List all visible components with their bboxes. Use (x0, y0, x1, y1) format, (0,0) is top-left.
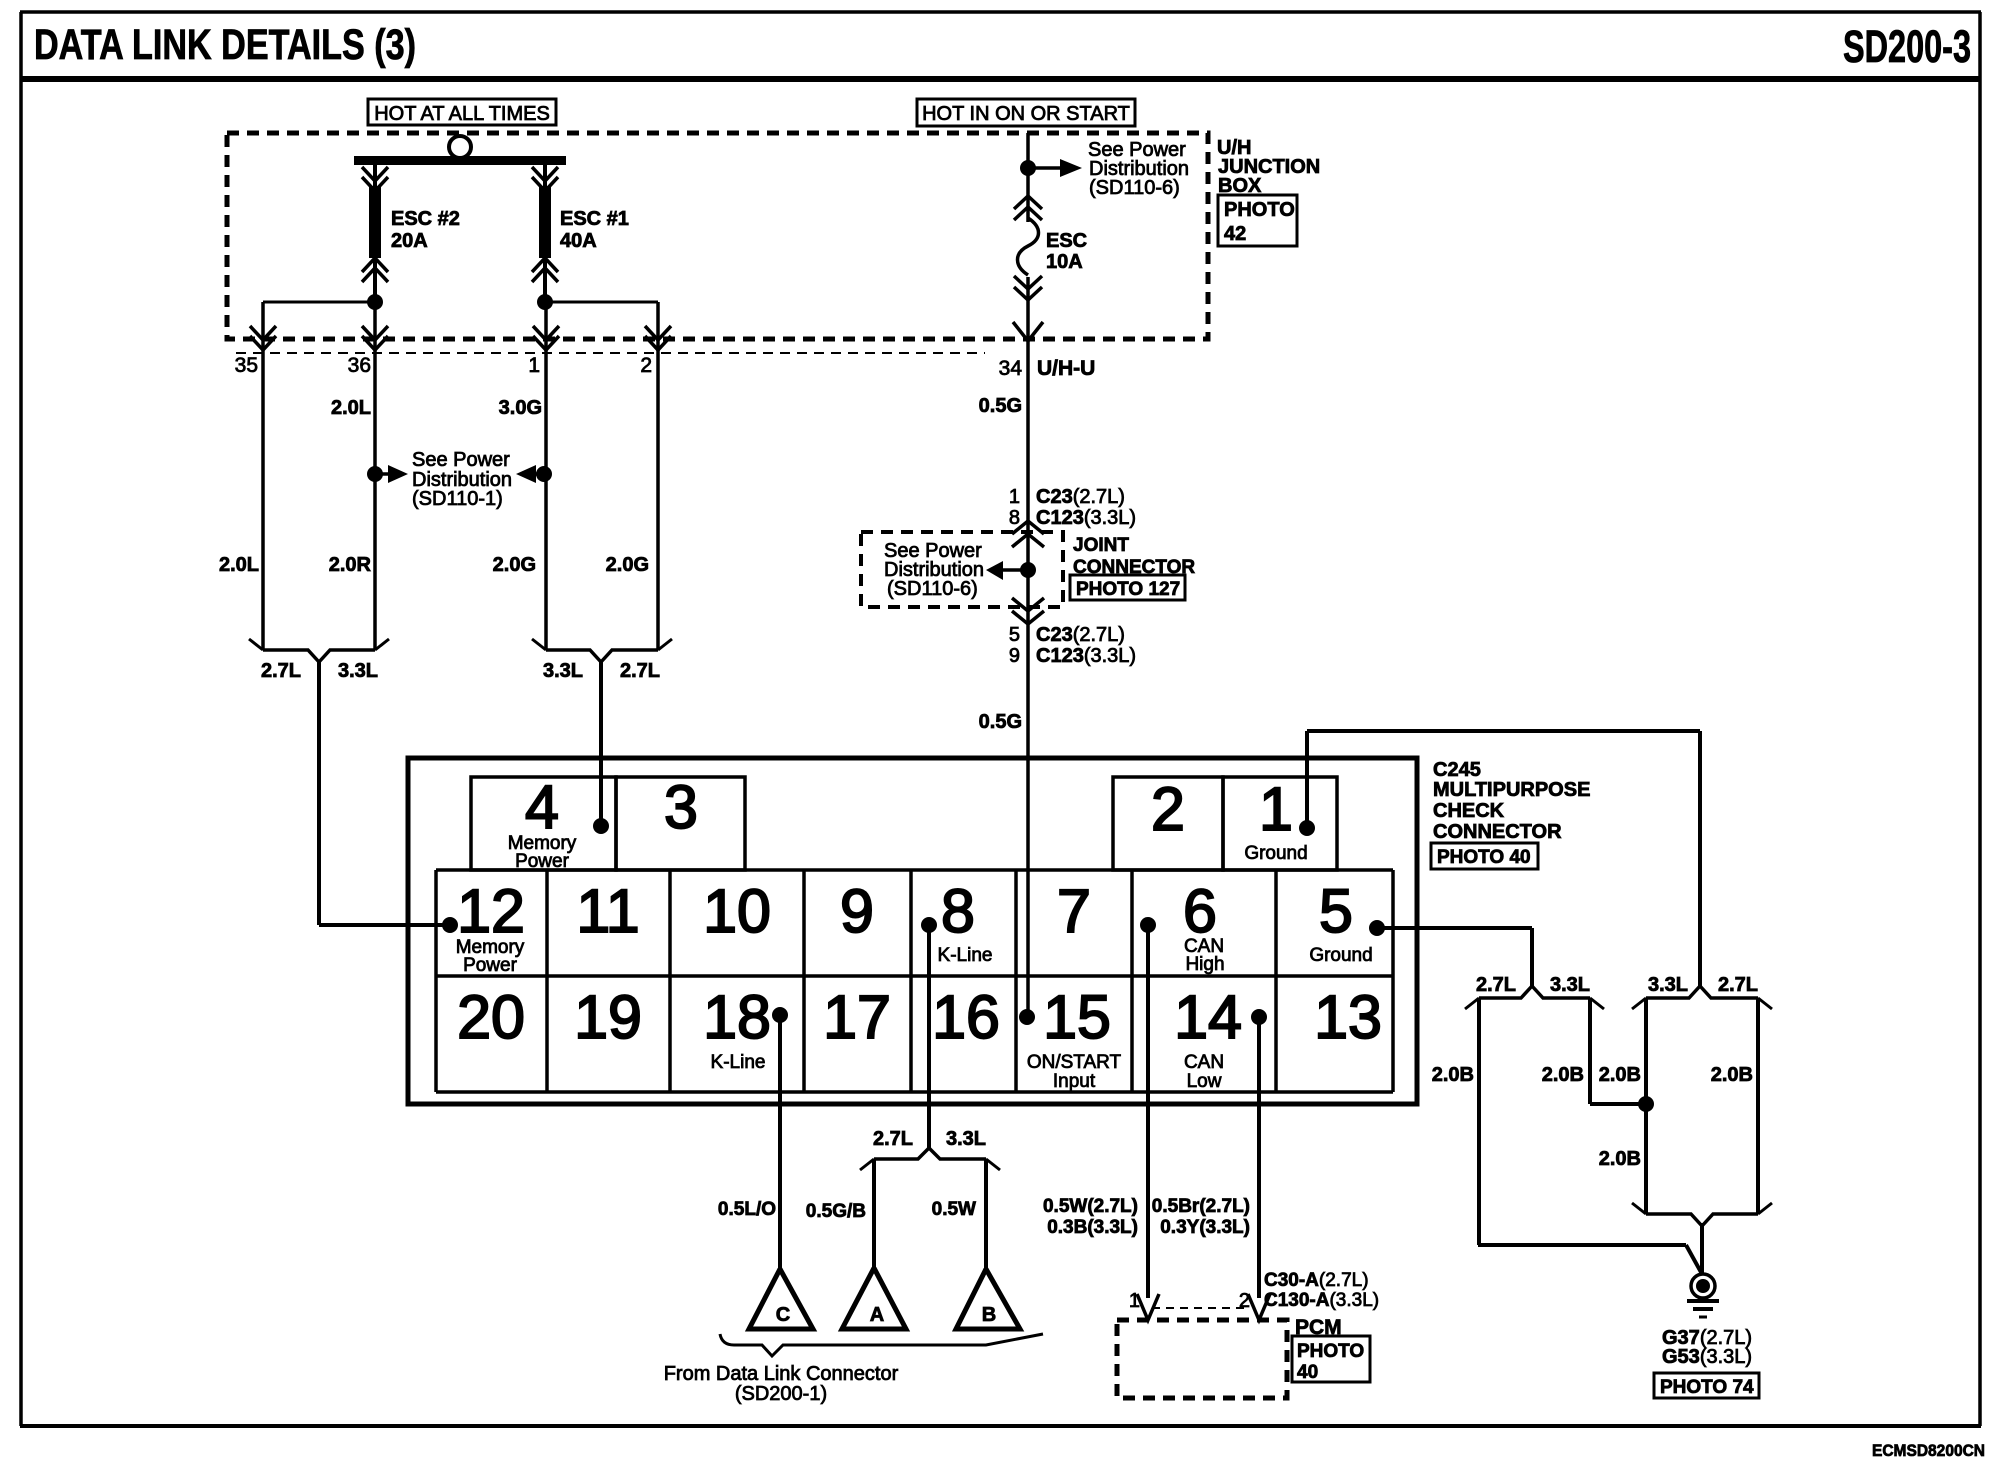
svg-text:Ground: Ground (1244, 843, 1307, 864)
svg-text:(SD110-6): (SD110-6) (887, 578, 978, 600)
svg-text:34: 34 (999, 357, 1023, 380)
svg-text:3.3L: 3.3L (1648, 974, 1688, 996)
svg-text:2.0R: 2.0R (329, 554, 372, 576)
svg-text:5: 5 (1009, 624, 1020, 646)
svg-text:14: 14 (1174, 983, 1242, 1051)
svg-text:1: 1 (1259, 775, 1293, 843)
svg-text:PHOTO: PHOTO (1297, 1341, 1364, 1362)
svg-text:3.3L: 3.3L (338, 660, 378, 682)
svg-text:B: B (982, 1304, 996, 1326)
svg-text:0.5Br(2.7L): 0.5Br(2.7L) (1152, 1196, 1250, 1217)
svg-text:6: 6 (1183, 877, 1217, 945)
svg-text:7: 7 (1057, 877, 1091, 945)
svg-text:20A: 20A (391, 230, 428, 252)
svg-text:K-Line: K-Line (938, 945, 993, 966)
svg-text:19: 19 (574, 983, 642, 1051)
svg-text:3.3L: 3.3L (946, 1128, 986, 1150)
svg-text:2.7L: 2.7L (1476, 974, 1516, 996)
svg-text:9: 9 (840, 877, 874, 945)
svg-text:0.5G: 0.5G (979, 395, 1022, 417)
svg-text:3.3L: 3.3L (1550, 974, 1590, 996)
svg-text:17: 17 (823, 983, 891, 1051)
svg-text:C130-A(3.3L): C130-A(3.3L) (1264, 1290, 1379, 1311)
svg-text:C123(3.3L): C123(3.3L) (1036, 645, 1136, 667)
svg-text:C245: C245 (1433, 759, 1481, 781)
svg-text:PHOTO 40: PHOTO 40 (1437, 847, 1531, 868)
svg-text:11: 11 (576, 877, 639, 945)
svg-text:0.5G: 0.5G (979, 711, 1022, 733)
svg-text:2.0L: 2.0L (331, 397, 371, 419)
svg-text:2.0B: 2.0B (1599, 1064, 1641, 1086)
svg-text:10: 10 (703, 877, 771, 945)
svg-text:Low: Low (1187, 1071, 1222, 1092)
svg-text:42: 42 (1224, 223, 1246, 245)
svg-text:JOINT: JOINT (1073, 535, 1129, 556)
svg-text:3.0G: 3.0G (499, 397, 542, 419)
svg-text:1: 1 (528, 354, 540, 377)
svg-text:HOT IN ON OR START: HOT IN ON OR START (922, 103, 1130, 125)
svg-text:2.0G: 2.0G (493, 554, 536, 576)
svg-text:Ground: Ground (1309, 945, 1372, 966)
svg-text:2.7L: 2.7L (261, 660, 301, 682)
svg-text:See Power: See Power (412, 449, 510, 471)
svg-text:High: High (1185, 954, 1224, 975)
svg-text:10A: 10A (1046, 251, 1083, 273)
svg-text:2.7L: 2.7L (1718, 974, 1758, 996)
svg-text:ESC: ESC (1046, 230, 1087, 252)
svg-text:3.3L: 3.3L (543, 660, 583, 682)
svg-text:ESC #2: ESC #2 (391, 208, 460, 230)
svg-text:(SD200-1): (SD200-1) (735, 1383, 827, 1405)
svg-text:2: 2 (640, 354, 652, 377)
svg-text:12: 12 (457, 877, 525, 945)
svg-text:18: 18 (703, 983, 771, 1051)
svg-text:HOT AT ALL TIMES: HOT AT ALL TIMES (374, 103, 550, 125)
svg-text:(SD110-6): (SD110-6) (1089, 177, 1180, 199)
svg-text:2.0B: 2.0B (1711, 1064, 1753, 1086)
svg-text:PHOTO: PHOTO (1224, 199, 1295, 221)
svg-text:2.0B: 2.0B (1432, 1064, 1474, 1086)
svg-text:ESC #1: ESC #1 (560, 208, 629, 230)
svg-text:From Data Link Connector: From Data Link Connector (664, 1363, 899, 1385)
svg-text:2.0B: 2.0B (1599, 1148, 1641, 1170)
svg-text:(SD110-1): (SD110-1) (412, 488, 503, 510)
svg-text:0.5W(2.7L): 0.5W(2.7L) (1043, 1196, 1138, 1217)
svg-text:CONNECTOR: CONNECTOR (1433, 821, 1562, 843)
svg-text:A: A (870, 1304, 884, 1326)
svg-text:40A: 40A (560, 230, 597, 252)
svg-text:0.3Y(3.3L): 0.3Y(3.3L) (1160, 1217, 1250, 1238)
svg-text:35: 35 (235, 354, 258, 377)
svg-text:G53(3.3L): G53(3.3L) (1662, 1346, 1752, 1368)
svg-text:16: 16 (932, 983, 1000, 1051)
svg-text:8: 8 (941, 877, 975, 945)
svg-text:Input: Input (1053, 1071, 1096, 1092)
svg-text:C23(2.7L): C23(2.7L) (1036, 624, 1125, 646)
svg-text:2.7L: 2.7L (873, 1128, 913, 1150)
svg-text:40: 40 (1297, 1362, 1318, 1383)
svg-text:9: 9 (1009, 645, 1020, 667)
svg-text:20: 20 (457, 983, 525, 1051)
svg-text:2.0G: 2.0G (606, 554, 649, 576)
svg-text:Power: Power (515, 851, 570, 872)
svg-text:CAN: CAN (1184, 1052, 1224, 1073)
svg-text:PHOTO 127: PHOTO 127 (1076, 579, 1180, 600)
svg-text:8: 8 (1009, 507, 1020, 529)
svg-text:C30-A(2.7L): C30-A(2.7L) (1264, 1270, 1369, 1291)
svg-text:0.5W: 0.5W (932, 1199, 976, 1220)
svg-text:SD200-3: SD200-3 (1843, 21, 1971, 72)
svg-text:2.0L: 2.0L (219, 554, 259, 576)
svg-text:DATA LINK DETAILS (3): DATA LINK DETAILS (3) (34, 21, 416, 69)
svg-text:5: 5 (1319, 877, 1353, 945)
svg-text:C23(2.7L): C23(2.7L) (1036, 486, 1125, 508)
svg-text:2.7L: 2.7L (620, 660, 660, 682)
svg-text:PHOTO 74: PHOTO 74 (1660, 1377, 1754, 1398)
svg-text:4: 4 (525, 773, 559, 841)
svg-text:0.5G/B: 0.5G/B (806, 1201, 866, 1222)
svg-text:36: 36 (348, 354, 371, 377)
svg-text:Power: Power (463, 955, 518, 976)
svg-text:CHECK: CHECK (1433, 800, 1505, 822)
svg-text:C: C (776, 1304, 790, 1326)
svg-text:0.3B(3.3L): 0.3B(3.3L) (1047, 1217, 1138, 1238)
svg-text:0.5L/O: 0.5L/O (718, 1199, 776, 1220)
svg-text:K-Line: K-Line (711, 1052, 766, 1073)
svg-text:ECMSD8200CN: ECMSD8200CN (1872, 1441, 1985, 1460)
svg-text:15: 15 (1043, 983, 1111, 1051)
svg-text:U/H-U: U/H-U (1037, 357, 1095, 380)
svg-text:3: 3 (664, 773, 698, 841)
svg-text:1: 1 (1009, 486, 1020, 508)
svg-text:13: 13 (1314, 983, 1382, 1051)
svg-text:MULTIPURPOSE: MULTIPURPOSE (1433, 779, 1590, 801)
svg-text:ON/START: ON/START (1027, 1052, 1122, 1073)
svg-text:2.0B: 2.0B (1542, 1064, 1584, 1086)
svg-text:1: 1 (1129, 1290, 1140, 1312)
svg-text:C123(3.3L): C123(3.3L) (1036, 507, 1136, 529)
svg-text:2: 2 (1151, 775, 1185, 843)
